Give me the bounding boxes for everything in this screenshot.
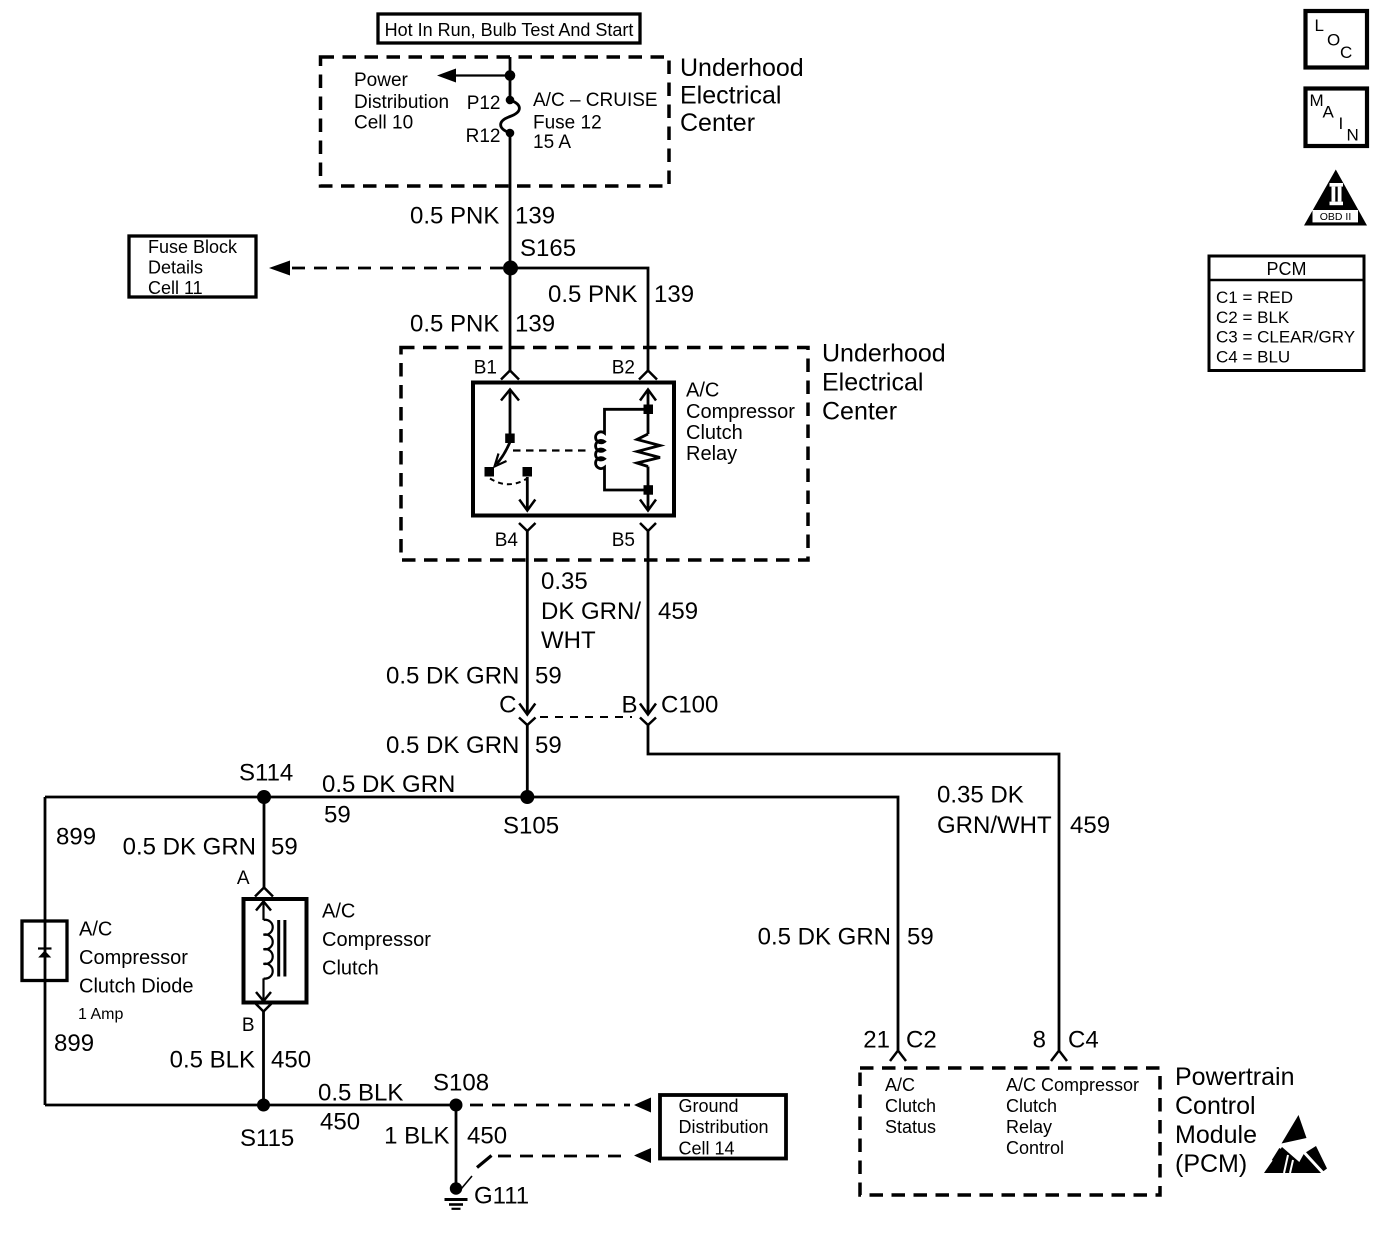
svg-text:B: B [242, 1015, 255, 1036]
svg-text:Distribution: Distribution [354, 92, 449, 113]
svg-text:Fuse Block: Fuse Block [148, 237, 238, 257]
relay switch NC contact (left) [485, 467, 495, 477]
wire: S114 down 0.5 DK GRN 59 to clutch pin A [263, 797, 266, 888]
wire: bottom horizontal 0.5 BLK 450 (left loop - S115 - S108) [45, 1104, 456, 1107]
underhood electrical center box (relay, dashed) [401, 348, 808, 561]
relay switch common line from B1 [501, 390, 519, 435]
node S114 (splice) [257, 790, 271, 804]
svg-text:Cell 10: Cell 10 [354, 113, 413, 134]
svg-text:N: N [1347, 126, 1359, 145]
svg-text:Cell 14: Cell 14 [679, 1139, 735, 1159]
wire: C100 pin B elbow right and down to PCM pin 8 C4 [648, 725, 1059, 1050]
svg-text:Clutch Diode: Clutch Diode [79, 976, 194, 998]
relay resistor lower line with down arrow to B5 [640, 467, 656, 511]
relay coil bottom junction [644, 485, 654, 495]
value label: 0.5 DK GRN 59 (below C100) [386, 732, 562, 759]
relay switch pivot contact [505, 434, 515, 444]
svg-text:899: 899 [56, 824, 96, 851]
svg-text:59: 59 [324, 802, 351, 829]
legend icon: MAIN box [1306, 89, 1368, 147]
svg-text:0.5 BLK: 0.5 BLK [318, 1080, 403, 1107]
wire: main horizontal 0.5 DK GRN (S114 - S105 - PCM branch) [45, 797, 898, 1050]
svg-text:0.5 DK GRN: 0.5 DK GRN [758, 924, 891, 951]
svg-text:Compressor: Compressor [322, 929, 431, 951]
ground G111 symbol [445, 1182, 468, 1209]
pin function label: A/C Clutch Status [885, 1075, 936, 1137]
svg-text:A/C: A/C [885, 1075, 915, 1095]
svg-text:459: 459 [658, 598, 698, 625]
svg-text:B: B [621, 692, 637, 719]
svg-text:0.35 DK: 0.35 DK [937, 782, 1024, 809]
svg-text:0.5 DK GRN: 0.5 DK GRN [123, 834, 256, 861]
connector C100 pin B (female side) [640, 718, 656, 726]
legend icon: OBD II triangle [1304, 170, 1367, 226]
svg-text:R12: R12 [466, 126, 501, 147]
value label: 0.5 DK GRN 59 (S114-S105) [322, 771, 455, 829]
pin R12 [506, 129, 515, 138]
legend icon: LOC box [1306, 11, 1368, 68]
power source label box: Hot In Run, Bulb Test And Start [378, 14, 640, 43]
svg-text:Compressor: Compressor [686, 401, 795, 423]
svg-text:A/C: A/C [79, 919, 112, 941]
svg-text:S115: S115 [240, 1125, 294, 1152]
svg-text:S165: S165 [520, 235, 576, 262]
svg-text:Details: Details [148, 258, 203, 278]
relay switch NO contact (right) [523, 467, 533, 477]
svg-text:450: 450 [467, 1123, 507, 1150]
svg-text:WHT: WHT [541, 627, 596, 654]
svg-text:C: C [1340, 43, 1352, 62]
svg-text:0.5 PNK: 0.5 PNK [410, 311, 499, 338]
dashed contact arc [490, 479, 527, 485]
section label: Powertrain Control Module (PCM) [1175, 1063, 1295, 1178]
value label: 0.5 DK GRN 59 (above C100) [386, 663, 562, 690]
svg-text:P12: P12 [467, 93, 501, 114]
callout box: Ground Distribution Cell 14 [660, 1095, 786, 1159]
ESD sensitivity symbol [1264, 1115, 1327, 1174]
svg-text:C2 = BLK: C2 = BLK [1216, 308, 1290, 327]
wire: B4 down 0.35 DK GRN/WHT to C100 pin C [519, 531, 535, 715]
relay switch movable arm [495, 442, 511, 467]
label: Power Distribution Cell 10 [354, 70, 449, 134]
svg-text:B4: B4 [495, 530, 519, 551]
svg-text:899: 899 [54, 1030, 94, 1057]
svg-text:Clutch: Clutch [885, 1096, 936, 1116]
svg-text:S114: S114 [239, 760, 293, 787]
wire: feed from Hot In Run into fuse P12 [509, 57, 512, 100]
relay K: A/C Compressor Clutch Relay box [473, 383, 674, 516]
svg-text:Fuse 12: Fuse 12 [533, 113, 602, 134]
svg-text:459: 459 [1070, 812, 1110, 839]
svg-text:S105: S105 [503, 813, 559, 840]
svg-text:C2: C2 [906, 1027, 937, 1054]
clutch coil line with arrows [256, 902, 273, 1002]
svg-text:8: 8 [1033, 1027, 1046, 1054]
svg-text:Clutch: Clutch [1006, 1096, 1057, 1116]
relay coil top junction [644, 405, 654, 415]
svg-text:L: L [1315, 16, 1324, 35]
svg-text:C100: C100 [661, 692, 718, 719]
svg-text:21: 21 [863, 1027, 890, 1054]
wire: S165 down 0.5 PNK 139 to relay pin B1 [509, 268, 512, 371]
pin 21 C2 connector (PCM) [890, 1051, 906, 1062]
section label: Underhood Electrical Center (top) [680, 54, 804, 137]
svg-text:G111: G111 [474, 1183, 529, 1210]
clutch L: A/C Compressor Clutch box [244, 899, 307, 1003]
wire: clutch pin B down 0.5 BLK 450 to S115 [262, 1012, 265, 1106]
svg-text:Clutch: Clutch [686, 422, 743, 444]
component label: A/C Compressor Clutch Relay [686, 380, 795, 466]
value label: 0.35 DK GRN/WHT [541, 568, 641, 654]
svg-text:A: A [1323, 103, 1335, 122]
clutch plates [279, 920, 285, 977]
svg-text:Hot In Run, Bulb Test And Star: Hot In Run, Bulb Test And Start [385, 20, 634, 40]
svg-text:59: 59 [907, 924, 934, 951]
svg-text:Ground: Ground [679, 1096, 739, 1116]
svg-text:139: 139 [654, 281, 694, 308]
dashed connector link C100 [540, 716, 632, 718]
value label: 0.5 BLK 450 (bottom wire) [318, 1080, 403, 1136]
svg-text:I: I [1339, 114, 1344, 133]
svg-text:0.5 DK GRN: 0.5 DK GRN [322, 771, 455, 798]
pin A connector [255, 888, 273, 897]
wire: S108 down 1 BLK 450 to G111 [455, 1105, 458, 1185]
pin B5 connector [640, 523, 656, 531]
svg-text:A: A [237, 868, 250, 889]
pin P12 [506, 96, 515, 105]
svg-text:OBD II: OBD II [1320, 211, 1352, 223]
svg-text:C4: C4 [1068, 1027, 1099, 1054]
svg-text:139: 139 [515, 203, 555, 230]
svg-text:C: C [499, 692, 516, 719]
svg-text:Center: Center [822, 398, 897, 426]
svg-text:0.5 DK GRN: 0.5 DK GRN [386, 663, 519, 690]
node S108 (splice) [450, 1099, 463, 1112]
svg-text:Cell 11: Cell 11 [148, 278, 203, 298]
pin B4 connector [519, 523, 536, 531]
svg-text:PCM: PCM [1267, 259, 1307, 279]
wire: C100 pin C down to S105 [526, 725, 529, 797]
svg-text:A/C Compressor: A/C Compressor [1006, 1075, 1139, 1095]
svg-text:59: 59 [271, 834, 298, 861]
svg-text:DK GRN/: DK GRN/ [541, 598, 641, 625]
svg-text:GRN/WHT: GRN/WHT [937, 812, 1052, 839]
svg-text:0.5 DK GRN: 0.5 DK GRN [386, 732, 519, 759]
diode symbol (cathode bar and triangle) [38, 949, 52, 958]
svg-text:C1 = RED: C1 = RED [1216, 288, 1293, 307]
svg-text:O: O [1327, 31, 1340, 50]
section label: Underhood Electrical Center (relay) [822, 340, 946, 426]
svg-text:A/C: A/C [686, 380, 719, 402]
relay B2 internal line with up arrow [640, 390, 656, 435]
svg-text:Distribution: Distribution [679, 1117, 769, 1137]
svg-text:B2: B2 [612, 358, 635, 379]
relay resistor (parallel with coil) [637, 434, 660, 467]
svg-text:A/C: A/C [322, 901, 355, 923]
svg-text:1 BLK: 1 BLK [384, 1123, 449, 1150]
value label: 0.5 PNK 139 [410, 203, 555, 230]
module U: Powertrain Control Module dashed box [860, 1068, 1160, 1195]
callout box: Fuse Block Details Cell 11 [129, 236, 256, 298]
svg-text:Relay: Relay [686, 443, 737, 465]
node S165 (splice) [503, 261, 518, 276]
svg-text:Center: Center [680, 109, 755, 137]
pin B1 connector [501, 371, 519, 380]
svg-text:1 Amp: 1 Amp [78, 1006, 123, 1023]
svg-text:Underhood: Underhood [680, 54, 804, 82]
svg-text:B1: B1 [474, 358, 497, 379]
diode CR: A/C Compressor Clutch Diode box [22, 921, 67, 981]
svg-text:S108: S108 [433, 1070, 489, 1097]
svg-text:(PCM): (PCM) [1175, 1150, 1247, 1178]
value label: 0.35 DK GRN/WHT 459 (PCM control branch) [937, 782, 1110, 840]
legend table: PCM connector colors [1209, 256, 1364, 371]
value label: 0.5 DK GRN 59 (PCM status branch) [758, 924, 934, 951]
svg-text:Power: Power [354, 70, 409, 91]
wire: left loop 899 down left side [44, 797, 47, 1105]
svg-text:0.5 PNK: 0.5 PNK [410, 203, 499, 230]
pin B connector [256, 1004, 272, 1012]
svg-text:139: 139 [515, 311, 555, 338]
component label: A/C Compressor Clutch Diode 1 Amp [78, 919, 194, 1024]
svg-text:0.35: 0.35 [541, 568, 588, 595]
svg-text:Relay: Relay [1006, 1117, 1052, 1137]
svg-text:Control: Control [1175, 1092, 1256, 1120]
svg-text:15 A: 15 A [533, 132, 571, 153]
svg-text:450: 450 [320, 1109, 360, 1136]
svg-text:0.5 BLK: 0.5 BLK [170, 1047, 255, 1074]
dashed mechanical link coil to switch [513, 449, 590, 451]
wire: 0.5 PNK 139 from fuse R12 down to S165 [509, 133, 512, 261]
svg-text:A/C – CRUISE: A/C – CRUISE [533, 90, 658, 111]
svg-text:Electrical: Electrical [822, 369, 923, 397]
component label: A/C Compressor Clutch [322, 901, 431, 980]
wire: arrow to Power Distribution [437, 69, 510, 83]
wire from NO contact to B4 [519, 477, 535, 511]
svg-text:Clutch: Clutch [322, 958, 379, 980]
svg-text:Electrical: Electrical [680, 82, 781, 110]
svg-text:450: 450 [271, 1047, 311, 1074]
svg-text:B5: B5 [612, 530, 635, 551]
junction: power distribution tap [505, 70, 516, 81]
node S105 (splice) [520, 790, 534, 804]
wire: S165 right branch 0.5 PNK 139 to relay pin B2 [511, 268, 649, 371]
svg-text:Underhood: Underhood [822, 340, 946, 368]
node S115 (splice) [257, 1099, 270, 1112]
svg-text:59: 59 [535, 732, 562, 759]
svg-text:Compressor: Compressor [79, 947, 188, 969]
value label: A/C - CRUISE Fuse 12 15 A [533, 90, 658, 153]
wire: B5 down 459 to C100 pin B [640, 531, 656, 715]
connector C100 pin C (female side) [519, 718, 536, 726]
svg-text:59: 59 [535, 663, 562, 690]
dashed arrow S108 to Ground Distribution [470, 1098, 651, 1113]
dashed arrow G111 to Ground Distribution [462, 1148, 652, 1189]
underhood electrical center box (top, dashed) [321, 57, 670, 186]
svg-text:C3 = CLEAR/GRY: C3 = CLEAR/GRY [1216, 328, 1355, 347]
pin function label: A/C Compressor Clutch Relay Control [1006, 1075, 1139, 1158]
pin B2 connector [639, 371, 657, 380]
svg-text:C4 = BLU: C4 = BLU [1216, 347, 1290, 366]
svg-text:Status: Status [885, 1117, 936, 1137]
fuse F12 element (wavy symbol) [501, 100, 520, 133]
svg-text:Powertrain: Powertrain [1175, 1063, 1295, 1091]
dashed arrow to Fuse Block Details [269, 261, 504, 276]
relay coil [596, 409, 648, 490]
svg-text:Control: Control [1006, 1138, 1064, 1158]
svg-text:0.5 PNK: 0.5 PNK [548, 281, 637, 308]
svg-text:Module: Module [1175, 1121, 1257, 1149]
pin 8 C4 connector (PCM) [1051, 1051, 1067, 1062]
